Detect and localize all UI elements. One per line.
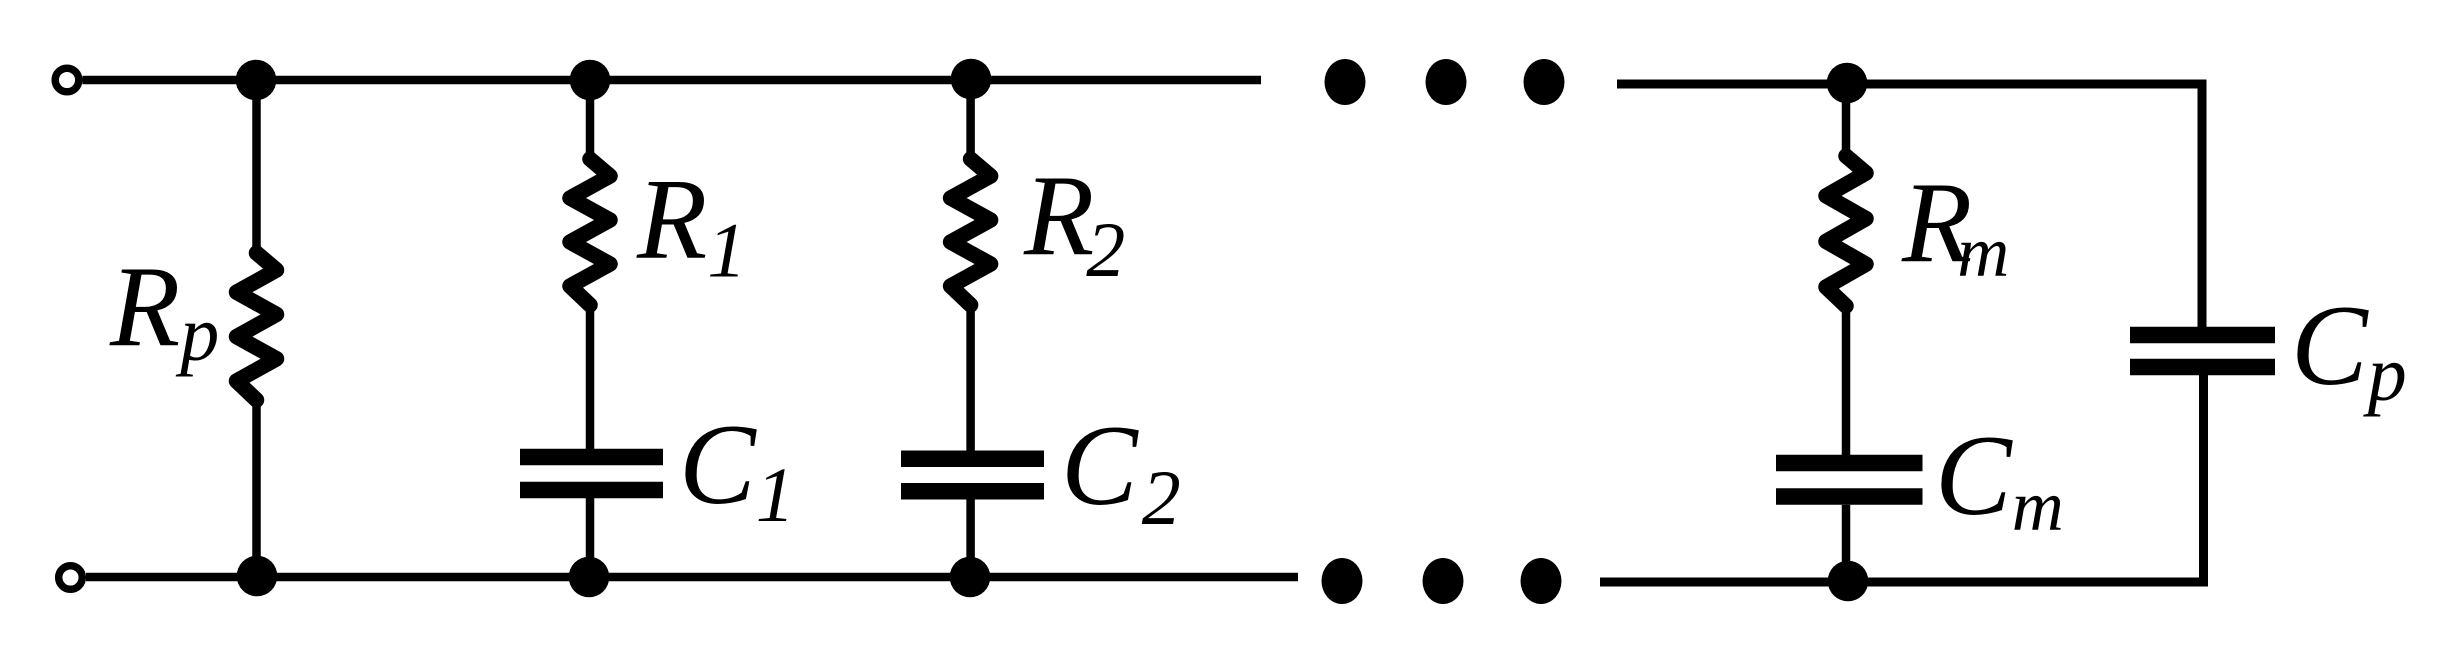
wire Rm to Cm xyxy=(1842,306,1851,455)
capacitor Cm xyxy=(1776,463,1923,497)
svg-text:R2: R2 xyxy=(1023,152,1125,293)
node top of Rp xyxy=(236,60,277,101)
svg-text:Rm: Rm xyxy=(1901,159,2009,292)
svg-text:Cp: Cp xyxy=(2291,282,2407,417)
ellipsis dots top rail xyxy=(1325,59,1565,105)
resistor R2 xyxy=(951,159,991,305)
node top of R1 xyxy=(570,60,611,101)
terminal T2 bottom left xyxy=(59,566,83,590)
node top of Rm xyxy=(1827,63,1868,104)
wire Rp top lead xyxy=(252,80,261,253)
capacitor C2 xyxy=(901,459,1044,492)
wire bottom rail right xyxy=(1600,375,2204,582)
terminal T1 top left xyxy=(55,68,79,92)
wire R1 top lead xyxy=(586,80,595,159)
wire Rm top lead xyxy=(1842,83,1851,156)
wire top rail right xyxy=(1617,84,2202,327)
capacitor C1 xyxy=(520,457,663,490)
node top of R2 xyxy=(951,59,992,100)
wire Rp bottom lead xyxy=(252,400,261,577)
ellipsis dots bottom rail xyxy=(1322,558,1562,604)
capacitor Cp xyxy=(2130,335,2275,367)
svg-text:Rp: Rp xyxy=(109,243,219,377)
wire bottom rail left xyxy=(86,573,1298,582)
wire top rail left xyxy=(83,76,1262,85)
node bottom of C2 xyxy=(950,557,991,598)
node bottom of Rp xyxy=(237,556,278,597)
wire C2 bottom lead xyxy=(966,500,975,578)
svg-text:Cm: Cm xyxy=(1935,412,2064,546)
resistor Rm xyxy=(1826,156,1866,306)
wire R2 to C2 xyxy=(966,305,975,451)
wire R1 to C1 xyxy=(586,305,595,449)
svg-text:R1: R1 xyxy=(636,156,746,294)
wire R2 top lead xyxy=(966,80,975,159)
resistor Rp xyxy=(237,253,277,400)
resistor R1 xyxy=(570,159,610,305)
node bottom of C1 xyxy=(569,557,610,598)
node bottom of Cm xyxy=(1828,561,1869,602)
wire C1 bottom lead xyxy=(586,498,595,577)
svg-text:C2: C2 xyxy=(1061,402,1181,541)
svg-text:C1: C1 xyxy=(679,401,795,538)
wire Cm bottom lead xyxy=(1842,505,1851,581)
